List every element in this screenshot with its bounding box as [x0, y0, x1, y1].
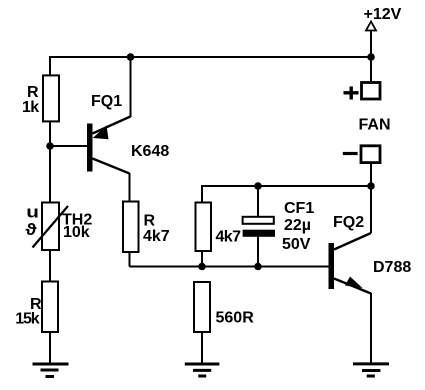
svg-text:FQ1: FQ1 — [91, 93, 122, 110]
svg-text:+12V: +12V — [364, 6, 402, 23]
svg-text:10k: 10k — [63, 224, 90, 241]
svg-text:15k: 15k — [15, 311, 40, 328]
svg-text:K648: K648 — [131, 143, 169, 160]
svg-text:1k: 1k — [22, 99, 39, 116]
svg-text:FQ2: FQ2 — [333, 214, 364, 231]
svg-text:22µ: 22µ — [284, 217, 311, 234]
svg-text:R: R — [144, 213, 156, 230]
svg-text:50V: 50V — [282, 236, 311, 253]
svg-text:FAN: FAN — [359, 117, 391, 134]
svg-text:D788: D788 — [373, 259, 411, 276]
svg-text:560R: 560R — [216, 310, 255, 327]
svg-text:4k7: 4k7 — [143, 228, 170, 245]
svg-text:CF1: CF1 — [284, 200, 314, 217]
svg-text:ϑ: ϑ — [26, 220, 37, 239]
svg-text:4k7: 4k7 — [216, 229, 242, 246]
